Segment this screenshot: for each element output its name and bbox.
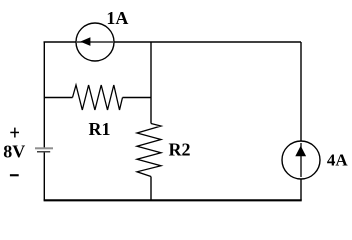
svg-text:1A: 1A [106,8,128,28]
svg-text:R1: R1 [89,119,111,139]
svg-text:8V: 8V [3,142,25,162]
svg-text:R2: R2 [169,140,191,160]
svg-text:4A: 4A [327,151,349,170]
